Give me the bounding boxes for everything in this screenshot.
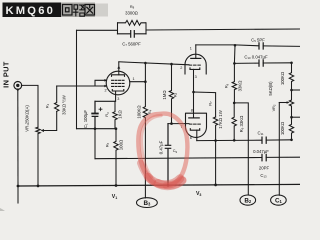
C1 plus sign	[99, 108, 102, 111]
wire: common return rail	[95, 157, 300, 159]
node cathode-plate junction	[192, 91, 195, 94]
terminal oval B2	[240, 195, 256, 205]
V1 grid lead arrowheads	[104, 79, 107, 87]
capacitor C10 0.047uF	[259, 60, 263, 66]
terminal oval B3	[137, 198, 158, 208]
svg-text:2: 2	[180, 66, 182, 70]
wire: jack hot to pot top	[21, 85, 38, 127]
wire: NFB line left segment	[77, 29, 118, 31]
svg-text:3300Ω: 3300Ω	[125, 11, 139, 16]
kanji 路 (drawn)	[73, 5, 84, 16]
svg-text:C5 5PF: C5 5PF	[251, 38, 265, 44]
svg-text:100KΩ: 100KΩ	[280, 71, 285, 85]
wire: V3 lower grid	[168, 123, 189, 125]
V1 cathode	[112, 90, 124, 92]
red marker annotation circle around C9	[138, 114, 187, 186]
wire: V2 plate line	[196, 45, 300, 47]
VR2 wiper	[279, 102, 287, 104]
resistor R4 100K (plate load) on B3 line	[143, 63, 147, 198]
svg-text:R8: R8	[130, 5, 135, 10]
svg-text:R5: R5	[106, 142, 111, 147]
capacitor C1 100uF electrolytic	[92, 101, 98, 128]
svg-text:33KΩ: 33KΩ	[238, 80, 243, 92]
svg-text:0.047µF: 0.047µF	[253, 149, 269, 154]
node rail141 right end	[290, 139, 293, 142]
kanji 回 (drawn)	[63, 5, 73, 16]
svg-text:C1 100µF: C1 100µF	[83, 110, 89, 129]
svg-text:VR2: VR2	[272, 104, 277, 111]
tube V1 envelope	[106, 71, 130, 95]
capacitor C11 0.047uF (in line)	[262, 137, 266, 143]
svg-text:1MΩ: 1MΩ	[162, 90, 167, 100]
V3 lower cathode lead	[196, 130, 198, 140]
node R8/R9/B2	[233, 102, 236, 105]
V3 upper plate bar	[191, 57, 201, 59]
node on rail at x=145.4	[144, 62, 147, 65]
wire: NFB vertical drop	[76, 30, 78, 128]
resistor R8 3300 ohm (NFB, top branch of parallel box)	[118, 20, 146, 25]
wire: cathode bottom rail (NFB node)	[77, 128, 117, 130]
node jack sleeve	[17, 185, 20, 188]
node grid of V3 lower	[170, 122, 173, 125]
svg-text:17KΩ 1W: 17KΩ 1W	[218, 109, 223, 128]
svg-text:R9 33KΩ: R9 33KΩ	[239, 115, 245, 133]
svg-text:100KΩ: 100KΩ	[136, 105, 141, 119]
svg-text:100Ω: 100Ω	[118, 139, 123, 150]
wire: plate rail to V2 grid	[119, 62, 189, 65]
svg-text:C10 0.047µF: C10 0.047µF	[244, 54, 268, 60]
V1 cathode lead	[115, 91, 117, 101]
tube V3 upper unit envelope (dome)	[185, 54, 206, 74]
capacitor C7 560PF (NFB, bottom branch)	[118, 31, 147, 38]
bottom-left corner scan smudge	[0, 208, 5, 211]
resistor R9 33K (to cathode rail)	[232, 103, 236, 140]
resistor R6 1M (grid leak)	[169, 64, 173, 124]
wire: V3 cathode rail	[197, 139, 292, 142]
node R7 bottom	[214, 184, 217, 187]
V1 plate bar	[112, 75, 125, 77]
wire: cathode top rail	[95, 100, 115, 102]
resistor R3 1K (cathode)	[113, 101, 117, 128]
node top of 100K	[290, 62, 293, 65]
resistor R5 100 ohm	[114, 129, 118, 186]
svg-text:3: 3	[117, 97, 119, 101]
svg-text:VR1250KΩ(A): VR1250KΩ(A)	[25, 105, 31, 132]
svg-text:1KΩ: 1KΩ	[118, 109, 123, 118]
node pot bottom	[37, 185, 40, 188]
V3 lower grid dashes	[189, 123, 200, 125]
V3 upper grid dashes	[189, 64, 200, 66]
svg-text:1: 1	[190, 46, 192, 50]
svg-text:8: 8	[191, 108, 193, 112]
V3 upper cathode	[190, 68, 200, 70]
node on rail at x=171.5	[170, 63, 173, 66]
svg-text:R7: R7	[208, 101, 213, 106]
svg-text:C13: C13	[260, 173, 267, 179]
wire: VR2 wiper down to C terminal	[278, 103, 280, 196]
node R3 bottom	[115, 127, 118, 130]
node R5 bottom	[115, 184, 118, 187]
svg-text:C11: C11	[257, 131, 263, 137]
ground bus	[18, 184, 300, 186]
potentiometer VR2 5K(B)	[289, 90, 293, 117]
svg-text:R8: R8	[225, 83, 230, 88]
resistor R8 33K (plate load)	[232, 45, 236, 103]
node 0.047 branch	[233, 62, 236, 65]
svg-text:C9: C9	[173, 149, 178, 154]
svg-text:1: 1	[133, 77, 135, 81]
svg-text:2: 2	[105, 88, 107, 92]
svg-text:100KΩ: 100KΩ	[280, 121, 285, 135]
input jack	[14, 82, 22, 90]
wire: cathode junction to R7	[194, 92, 216, 117]
node R9 on rail	[233, 139, 236, 142]
capacitor C13 20PF (in line)	[262, 154, 266, 160]
wire: grid feed to V1	[57, 80, 106, 86]
node plate/R8	[234, 44, 237, 47]
wire: 0.047 coupling branch	[234, 62, 291, 65]
wire: V3 upper cathode down to lower plate	[193, 69, 195, 117]
node C9 bottom	[167, 184, 170, 187]
svg-text:33KΩ ½W: 33KΩ ½W	[62, 94, 67, 115]
svg-text:3: 3	[195, 75, 197, 79]
svg-text:V3: V3	[196, 191, 201, 197]
svg-text:R6: R6	[174, 92, 179, 97]
resistor R7 17K 1W	[213, 117, 217, 185]
svg-text:B2: B2	[244, 197, 252, 204]
V1 plate lead	[118, 62, 120, 75]
V3 lower cathode	[190, 129, 199, 131]
tube V3 lower unit envelope (cup)	[186, 113, 207, 137]
svg-text:R3: R3	[105, 112, 110, 117]
svg-text:20PF: 20PF	[259, 166, 270, 171]
wire: NFB line right segment to edge	[146, 29, 300, 30]
wire: B2 feed	[234, 103, 248, 195]
svg-text:0.47µF: 0.47µF	[159, 140, 164, 154]
parallel box verticals	[118, 23, 147, 34]
wire: jog from NFB node down to common rail	[94, 129, 96, 159]
resistor R11 100K lower	[289, 117, 293, 140]
V3 upper plate lead	[195, 45, 197, 59]
node/stub to OPT tap lower	[290, 116, 293, 119]
capacitor C9 0.47uF (red-circled)	[165, 124, 170, 186]
svg-text:B3: B3	[143, 200, 151, 207]
svg-text:5KΩ(B): 5KΩ(B)	[268, 81, 273, 96]
svg-text:6: 6	[190, 136, 192, 140]
svg-text:IN PUT: IN PUT	[2, 61, 11, 88]
resistor R1 33K 1/2W	[55, 86, 59, 111]
V1 grid dashes	[112, 80, 124, 86]
VR1 wiper arrow	[43, 112, 57, 131]
kanji 図 (drawn)	[85, 5, 95, 16]
resistor R10 100K	[289, 63, 293, 90]
node C1 bottom	[94, 127, 97, 130]
wire: jack sleeve to ground bus	[17, 89, 19, 186]
svg-text:R1: R1	[46, 103, 51, 108]
capacitor C5 5PF	[259, 43, 263, 49]
potentiometer VR1 250K(A)	[36, 127, 40, 134]
svg-text:C1: C1	[275, 197, 283, 204]
svg-text:V1: V1	[112, 194, 117, 200]
V3 lower plate bar	[189, 117, 199, 119]
node: plate to B3 line	[144, 80, 147, 83]
V1 plate right lead (pin 1)	[130, 81, 146, 83]
node/stub to OPT tap upper	[290, 89, 293, 92]
terminal oval C1	[271, 195, 287, 205]
V1 plate lead arrowhead	[117, 66, 120, 69]
ground stub	[17, 186, 19, 203]
svg-text:C7 560PF: C7 560PF	[122, 42, 141, 48]
title block KMQ60回路図	[3, 3, 109, 18]
node R7 on rail	[214, 139, 217, 142]
svg-text:KMQ60: KMQ60	[6, 5, 56, 17]
